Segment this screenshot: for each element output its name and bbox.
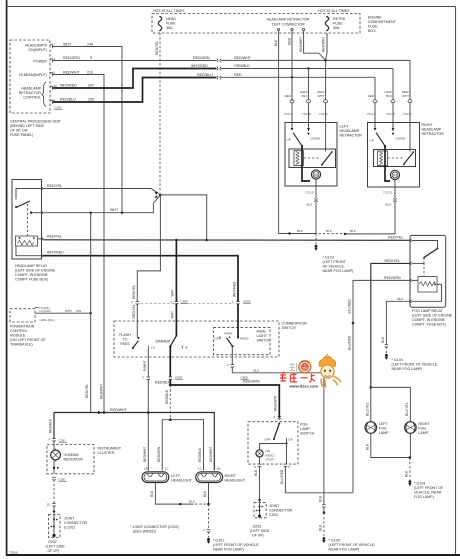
wire BLK below right fog lamp [409,433,411,457]
wire WHT 249 from CPU pin7, turns down at x122 to node W [53,47,123,213]
svg-text:C805: C805 [181,300,189,304]
svg-text:CONTROL: CONTROL [23,96,41,100]
svg-text:249: 249 [87,42,93,46]
instrument cluster label [98,447,122,456]
in-line connector on left motor lead [314,198,318,201]
svg-text:HI: HI [185,345,188,349]
svg-text:PARK: PARK [225,331,233,335]
border frame top [6,6,456,8]
wire WHT/RED 247 from CPU pin10 (thick) stepping up to y68.5 [53,69,217,89]
svg-text:RED: RED [368,94,375,98]
wire RED/BLK dashed from dimmer output down [169,385,171,420]
wire motor lead below box [394,187,396,198]
right fog lamp [405,422,417,434]
svg-text:RED/WHT: RED/WHT [100,384,104,399]
fuse HEAD FUSE 30A value label [166,17,176,30]
ON indicator label [266,449,275,461]
PCM location label [10,324,46,346]
wire indicator down to node [53,460,55,474]
CPU location note [10,120,62,138]
svg-text:RED: RED [234,73,242,77]
svg-text:RETRACTOR: RETRACTOR [422,132,445,136]
svg-text:BLU/RED: BLU/RED [348,335,352,350]
svg-text:LIGHT: LIGHT [257,334,268,338]
svg-text:COMBINATION: COMBINATION [282,322,307,326]
svg-text:30A: 30A [333,26,340,30]
left fog lamp label [379,422,389,435]
right retractor motor [390,170,399,179]
node GRN/BLK junction dot left retractor [307,67,309,69]
wires entering left retractor box [292,103,326,148]
ground G105 symbol [322,537,325,543]
wire BLK riser below tick [323,507,325,513]
svg-text:RED/WHT: RED/WHT [110,408,128,412]
svg-text:SWITCH: SWITCH [282,326,297,330]
flash-to-pass switch blade [133,341,139,348]
wire dimmer output to fog switch feed (horizontal) [170,385,279,418]
wire high beam feed horizontal run [54,413,214,471]
svg-text:FOG: FOG [300,423,308,427]
ground G105 label [329,539,376,552]
svg-text:WHT/RED: WHT/RED [47,251,64,255]
wire from pin RED/WHT into relay switch [409,150,411,152]
left retractor relay coil [294,151,304,166]
wires entering right retractor box [375,103,410,150]
left headlamp retractor box [285,123,337,187]
watermark mascot figure [319,354,341,387]
svg-text:5: 5 [171,300,173,304]
svg-text:BLK: BLK [405,470,409,477]
svg-text:RED/BLU: RED/BLU [60,98,76,102]
ground G202 label [46,540,66,553]
main switch PARK contact dot [229,336,231,338]
left retractor relay switch blade [322,153,332,165]
svg-text:3: 3 [142,376,144,380]
svg-text:1: 1 [49,437,51,441]
fog relay location label [412,309,453,327]
wire RED/WHT from connector to right retractor drop [221,59,410,61]
wire RED/YEL from relay pin1 to junction J1 [43,189,159,194]
wire RED/YEL branch from J1 down to flash-to-pass [137,195,160,302]
ground bus junction dot right [344,233,346,235]
headlamp relay coil to pin3 wire [38,238,42,240]
headlamp relay location label [15,264,56,282]
border frame left [6,0,8,556]
svg-text:NEAR FOG LAMP): NEAR FOG LAMP) [323,269,354,273]
test connector pin 1 [278,28,280,30]
ground G104 rear symbol [408,480,411,486]
svg-text:HEADLAMP RELAY: HEADLAMP RELAY [15,264,48,268]
node A junction dot [324,59,326,61]
wire RED/GRN 9 from CPU pin1 to in-line connector [53,60,217,62]
wire RED/WHT drop to left retractor [325,60,327,99]
svg-text:BLK: BLK [350,229,356,233]
fog relay switch blade [424,249,438,258]
svg-text:(LEFT FRONT OF: (LEFT FRONT OF [414,486,444,490]
svg-text:ON(INPUT): ON(INPUT) [28,48,47,52]
svg-text:BLK: BLK [398,297,404,301]
left retractor relay box [289,149,336,168]
wire motor lead below box [315,186,317,198]
svg-text:2: 2 [227,363,229,367]
svg-text:HEADLIGHT: HEADLIGHT [171,478,192,482]
connector C281 label [59,439,67,443]
svg-text:SWITCH: SWITCH [300,432,315,436]
right headlamp retractor box [368,123,420,188]
svg-text:10: 10 [47,502,51,506]
svg-text:BLK: BLK [386,94,392,98]
svg-text:RED/GRN: RED/GRN [243,380,260,384]
CPU pin 7 tick [50,45,53,49]
svg-text:* G101: * G101 [213,539,224,543]
svg-text:RED/WHT: RED/WHT [209,447,213,462]
svg-text:FUSE PANEL): FUSE PANEL) [10,133,33,137]
svg-text:LO: LO [151,345,156,349]
hi-beam indicator lamp [51,449,61,462]
headlamp relay coil to pin4 wire [16,246,42,256]
headlamp relay box [12,180,42,260]
svg-text:WHT: WHT [318,94,325,98]
svg-text:M: M [393,172,396,177]
wire BLU/RED riser down to fog switch loop [352,323,354,493]
joint connector C202 internal bus [50,515,58,535]
wire BLK from fog relay pin4 [386,301,410,344]
connector tick on BLK riser [322,505,325,508]
svg-text:FOG LAMP RELAY: FOG LAMP RELAY [412,309,444,313]
svg-text:BLK: BLK [365,443,369,450]
connector C805 tick on dimmer output [169,377,172,380]
right retractor DOWN contact arrowhead [392,128,395,131]
svg-text:FUSE: FUSE [333,22,343,26]
svg-text:2: 2 [203,528,205,532]
svg-text:* G104: * G104 [414,482,425,486]
svg-text:7C2-D: 7C2-D [305,191,315,195]
wire label RED/WHT (right retractor) [402,90,409,98]
svg-text:1: 1 [232,300,234,304]
wire BLK dashed down to ground G101 [208,504,210,529]
fog relay coil winding [420,282,436,286]
wire from dimmer LO contact down [147,348,149,377]
svg-text:C246: C246 [54,106,62,110]
svg-text:FOG: FOG [379,426,387,430]
connector oval on left retractor GRN/BLK wire [307,100,311,103]
svg-text:CLUSTER: CLUSTER [98,451,115,455]
wire left fog lamp drop [370,387,372,421]
svg-text:LO (D/L): LO (D/L) [40,309,52,313]
svg-text:BLK: BLK [302,94,308,98]
svg-text:HI-BEAM: HI-BEAM [64,453,79,457]
svg-text:G202: G202 [48,540,57,544]
junction J1 dot [159,194,162,197]
svg-text:WHT/RED: WHT/RED [191,64,208,68]
svg-text:RIGHT: RIGHT [418,422,430,426]
connector C805 pin tick dimmer wire [175,302,178,305]
wire RED/YEL flash-to-pass below connector [136,304,138,338]
node main feed / J1 branch junction dot [206,239,208,241]
svg-text:BLU/YEL: BLU/YEL [405,402,409,416]
fog relay coil to pin4 wire [412,284,442,301]
connector oval on left retractor RED wire [290,100,294,103]
node BLU/RED junction dot [352,322,355,325]
svg-text:LEFT: LEFT [171,474,181,478]
svg-text:OF I/P, ON: OF I/P, ON [10,129,28,133]
left fog lamp [365,422,377,434]
svg-text:C281: C281 [59,439,67,443]
CPU pin 1 tick [50,59,53,63]
wire RED from test connector pin2 down to node B [291,31,293,101]
headlamp relay internal feed wire [16,189,42,200]
watermark emblem circle [299,361,311,373]
svg-text:7C2-B: 7C2-B [302,112,311,116]
connector C805 tick on main switch output [231,365,234,368]
svg-text:UP: UP [370,139,374,143]
fog relay coil box [418,277,437,293]
svg-text:7C2-C: 7C2-C [403,112,413,116]
svg-text:VEHICLE, REAR: VEHICLE, REAR [414,491,442,495]
svg-text:C2DL (D/L): C2DL (D/L) [40,318,55,322]
svg-text:CONTROL: CONTROL [10,329,28,333]
CPU pin 8 tick [50,73,53,77]
svg-text:BLK: BLK [203,490,207,497]
fog relay pin2 contact tick [423,262,425,266]
svg-text:DOWN: DOWN [311,137,321,141]
svg-text:INSTRUMENT: INSTRUMENT [98,447,122,451]
svg-text:8: 8 [53,71,55,75]
ground G103 dashed drop [315,234,317,245]
wire GRN/BLK drop to right retractor [392,69,394,100]
junction J1 arrowheads [154,192,157,198]
svg-text:BLK: BLK [254,469,258,476]
fog lamp relay box [410,235,446,307]
svg-text:RED/GRN: RED/GRN [157,446,161,462]
svg-text:CONNECTOR: CONNECTOR [64,521,87,525]
svg-text:BLK: BLK [318,495,322,502]
joint connector C203 bottom dot [258,515,261,518]
wire BLK below right headlight [208,483,210,505]
svg-text:BLU/RED: BLU/RED [348,299,352,314]
wire main switch output down [231,346,233,364]
connector C805 pin tick flash-to-pass wire [136,302,139,305]
svg-text:FOG LAMP): FOG LAMP) [414,495,434,499]
svg-text:253: 253 [76,309,81,313]
connector label C805 [241,376,249,380]
flash-to-pass label [119,333,131,346]
svg-text:OFF: OFF [265,438,271,442]
connector C281 tick [52,439,55,442]
svg-text:WHT: WHT [110,208,119,212]
combination switch label [282,322,307,331]
svg-text:BLK: BLK [254,368,260,372]
svg-text:FLASH: FLASH [119,333,131,337]
right retractor UP contact arrowhead [374,128,377,131]
svg-text:72508: 72508 [9,551,18,555]
svg-text:NEAR FOG LAMP): NEAR FOG LAMP) [392,367,423,371]
in-line connector on WHT/RED wire [217,67,221,71]
svg-text:HEAD: HEAD [240,336,249,340]
wire below tick [208,532,210,538]
fog relay coil junction dot [434,284,436,286]
svg-text:MODULE: MODULE [10,333,26,337]
node dimmer output junction dot [169,384,172,387]
svg-text:TO: TO [123,338,128,342]
ground bus junction dot [288,232,290,234]
svg-text:FOG: FOG [418,426,426,430]
border frame right [455,7,457,555]
node PCM riser junction dot [90,312,92,314]
svg-text:COMPT FUSE BOX): COMPT FUSE BOX) [15,278,48,282]
joint connector C202 label [64,517,87,530]
svg-text:256: 256 [88,98,94,102]
headlamp relay blade pivot dot [15,206,17,208]
instrument cluster box (dashed) [47,445,94,474]
svg-text:(LEFT SIDE OF ENGINE: (LEFT SIDE OF ENGINE [15,269,56,273]
svg-text:210: 210 [87,70,93,74]
fog relay dashed actuator link [423,258,425,277]
svg-text:WHT: WHT [65,309,72,313]
svg-text:REAR FOG LAMP): REAR FOG LAMP) [329,548,360,552]
svg-text:R/WHT: R/WHT [143,360,147,371]
connector oval on right retractor RED wire [373,100,377,103]
node riser junction dot [103,411,106,414]
svg-text:WHT/RED: WHT/RED [60,84,77,88]
svg-text:TRANSAXLE): TRANSAXLE) [10,342,33,346]
svg-text:RETRACTOR: RETRACTOR [19,91,42,95]
svg-text:www.dzsc.com: www.dzsc.com [289,384,319,389]
svg-text:30A: 30A [166,26,173,30]
svg-text:RED/WHT: RED/WHT [234,56,252,60]
right retractor relay switch blade [404,153,413,165]
right headlight bulb [196,472,223,483]
svg-text:BLU/YEL: BLU/YEL [365,402,369,416]
ground bus wire BLK solid left section [279,233,317,235]
joint connector C203 box (dashed) [254,503,266,518]
wire WHT 253 from PCM to riser [39,312,91,314]
headlamp relay coil terminal dots [19,237,35,239]
svg-text:ON: ON [288,438,293,442]
right headlight label [225,474,246,483]
wire low beam to left headlight [162,420,170,471]
wire RED/WHT from RETRA fuse down to node A [326,33,327,60]
wire BLK below left headlight [155,483,193,505]
svg-text:6: 6 [254,465,256,469]
svg-text:RED/YEL: RED/YEL [85,384,89,398]
connector oval on right retractor GRN/BLK wire [391,100,395,103]
svg-text:* G105: * G105 [329,539,340,543]
flash-to-pass contact dot [138,337,140,339]
svg-text:HOT AT ALL TIMES: HOT AT ALL TIMES [318,9,350,13]
wire into joint connector [53,506,55,512]
svg-text:HOT AT ALL TIMES: HOT AT ALL TIMES [153,9,185,13]
wire from pin RED/WHT into relay switch [325,148,327,152]
right retractor relay coil [378,151,388,166]
svg-text:(C202): (C202) [64,526,75,530]
central processing unit box (dashed) [10,40,50,113]
svg-text:OF I/P): OF I/P) [48,549,60,553]
ground G103 symbol [314,245,317,251]
svg-text:NEAR FOG LAMP): NEAR FOG LAMP) [213,548,244,552]
label ENGINE COMPARTMENT FUSE BOX [368,16,397,34]
svg-text:RED/GRN: RED/GRN [274,395,278,411]
svg-text:RED/YEL: RED/YEL [132,304,136,318]
headlamp retractor test connector label [266,18,309,27]
wire indicator to pin6 [259,457,261,464]
svg-text:4: 4 [131,300,133,304]
main switch blade pivot dot [231,345,233,347]
wire RED/BLK from high beam run corner down to indicator [53,413,55,439]
wire RED/BLU 256 from CPU pin6 (thick) stepping up to y77.5 [53,78,217,103]
test connector pin 3 [303,28,305,30]
connector oval on left retractor RED/WHT wire [324,100,328,103]
svg-text:RETRA: RETRA [333,17,346,21]
svg-text:* G103: * G103 [323,256,334,260]
wire BLU/RED from pin5 U-route to riser [285,466,353,493]
fog relay pin ticks [410,239,412,303]
joint connector C203 internal bus [255,503,263,516]
joint connector footnote [130,525,179,534]
joint connector C202 box (dashed) [49,515,61,538]
connector tick on G101 wire [207,530,210,533]
svg-text:OF VEHICLE,: OF VEHICLE, [323,265,345,269]
svg-text:WHT: WHT [402,94,409,98]
node right headlight ground dot [207,503,210,506]
watermark ghost characters [290,363,297,372]
wire RED drop to right retractor [374,77,376,100]
joint connector C202 bottom dot [52,534,55,537]
ground G104 label [392,358,439,371]
svg-text:BLK: BLK [150,490,154,497]
node BLK riser dot [323,511,326,514]
svg-text:1B: 1B [217,466,221,470]
svg-text:(LEFT SIDE OF ENGINE: (LEFT SIDE OF ENGINE [412,314,453,318]
svg-text:RED/YEL: RED/YEL [47,235,62,239]
wire BLK riser down to ground G105 [323,373,325,505]
ground bus dashed section [319,233,344,235]
svg-text:MAIN: MAIN [257,329,266,333]
wire RED/YEL from pin2 down to fog lamp feed [371,263,410,387]
fog switch pin5 tick [284,464,287,467]
ON indicator lamp [256,450,263,457]
wire thick from switch pivot down inside left retractor [302,146,310,181]
svg-text:RED/GRN: RED/GRN [193,56,210,60]
wire WHT dimmer feed below connector [175,240,177,302]
fog relay internal pin1 wire [412,241,438,249]
svg-text:HEADLAMP RETRACTOR: HEADLAMP RETRACTOR [266,18,309,22]
ground G103 label [323,256,354,274]
connector label C805 [175,376,183,380]
svg-text:RED: RED [285,94,292,98]
svg-text:(BUS WIRED): (BUS WIRED) [133,530,156,534]
wire motor to box bottom [394,180,396,187]
svg-text:JOINT: JOINT [269,504,280,508]
svg-text:RED/BLK: RED/BLK [198,447,202,462]
node indicator ground dot with arrow [53,467,60,469]
combination switch box (dashed) [114,321,279,357]
svg-text:COMPT, IN ENGINE: COMPT, IN ENGINE [15,273,49,277]
svg-text:HEADLAMP: HEADLAMP [422,128,442,132]
fog switch blade [274,424,279,439]
svg-text:BLU/RED: BLU/RED [280,469,284,484]
engine compartment fuse box (dashed) [152,14,360,34]
svg-text:CENTRAL PROCESSING UNIT: CENTRAL PROCESSING UNIT [10,120,62,124]
svg-text:ATOR: ATOR [266,458,275,462]
main light switch label [257,329,272,342]
svg-text:HI BEAM(INPUT): HI BEAM(INPUT) [19,73,47,77]
wire feed arrowhead [98,411,101,414]
fuse RETRACTOR FUSE 30A value label [333,17,346,30]
svg-text:WHT: WHT [63,42,72,46]
svg-text:BLK: BLK [189,500,195,504]
CPU pin 10 tick [50,86,53,90]
